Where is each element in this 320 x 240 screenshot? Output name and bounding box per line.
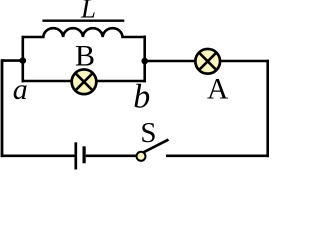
wire: node b to lamp A to right corner <box>145 60 269 63</box>
battery long plate <box>74 142 77 169</box>
wire: right edge of parallel loop <box>143 36 146 83</box>
wire: left connector into node a <box>2 59 23 62</box>
battery short plate <box>82 146 85 163</box>
svg-text:b: b <box>133 79 150 116</box>
wire: left outer vertical <box>1 59 4 157</box>
lamp A bulb circle <box>195 49 220 74</box>
wire: right outer vertical <box>266 60 269 157</box>
svg-text:A: A <box>207 73 229 105</box>
wire: left edge of parallel loop <box>21 36 24 83</box>
lamp B bulb circle <box>72 69 97 94</box>
svg-text:a: a <box>13 73 28 106</box>
lamp A cross <box>199 53 216 70</box>
wire: battery to switch <box>86 155 137 158</box>
wire: bottom left to battery <box>1 155 75 158</box>
svg-text:S: S <box>140 117 156 149</box>
node a junction dot <box>20 57 27 64</box>
inductor L coil with top wire <box>23 28 145 37</box>
wire: bottom of parallel loop (lamp B row) <box>22 80 146 83</box>
switch S lever <box>141 140 169 154</box>
lamp B cross <box>75 73 92 90</box>
node b junction dot <box>141 58 148 65</box>
svg-text:L: L <box>80 0 96 23</box>
svg-text:B: B <box>75 40 95 73</box>
wire: switch to right corner <box>166 155 269 158</box>
switch S pivot circle <box>137 152 146 161</box>
inductor L iron core bar <box>42 20 124 22</box>
